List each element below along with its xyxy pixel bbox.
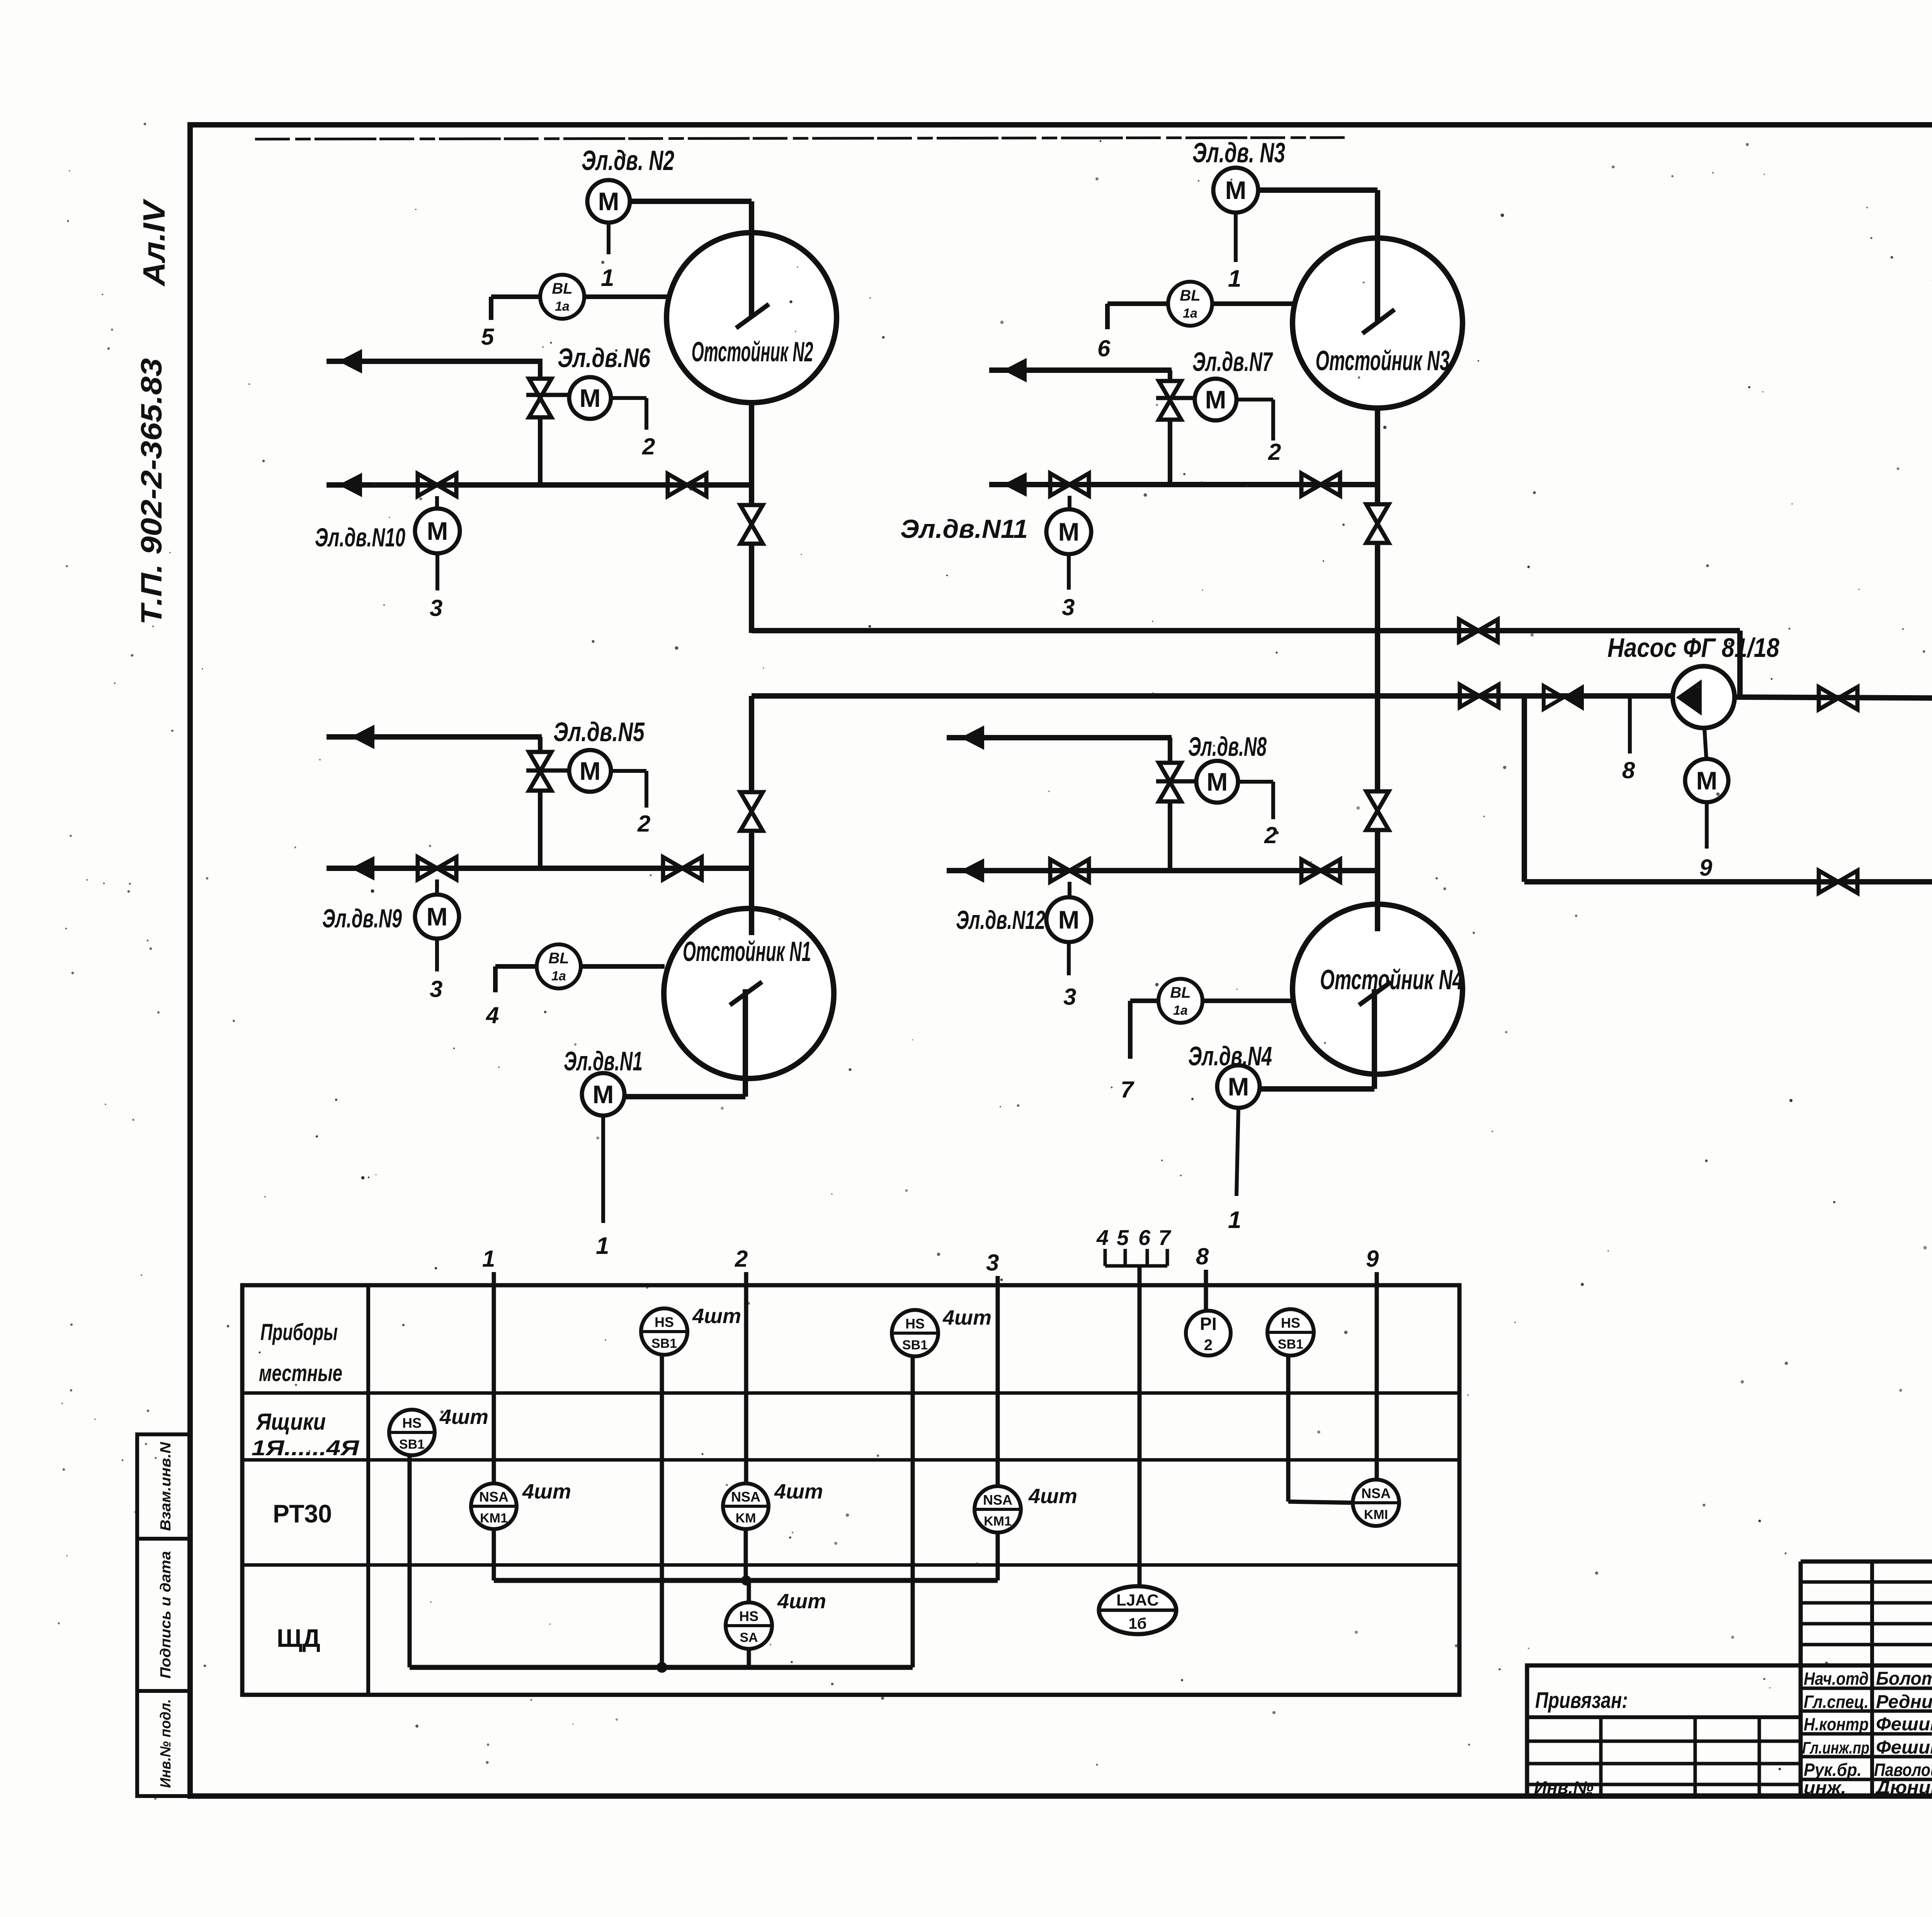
- svg-text:NSA: NSA: [983, 1492, 1012, 1508]
- wire M3 terminal stem: [1234, 213, 1238, 262]
- motor M5: [569, 750, 611, 792]
- svg-text:Эл.дв. N3: Эл.дв. N3: [1192, 138, 1285, 168]
- wire tank3 drain and main riser: [1375, 408, 1380, 504]
- wire HS/SA to ShchD bus: [747, 1648, 751, 1667]
- svg-text:3: 3: [430, 976, 442, 1002]
- signal line 3 wire to bus: [996, 1532, 1000, 1580]
- wire BL4 left: [1130, 998, 1158, 1003]
- wire M4 to tank4 mechanism: [1260, 1086, 1374, 1092]
- arrow tank1 lower outflow: [352, 857, 374, 880]
- valve on v chashu line: [1819, 871, 1857, 893]
- wire valve11 to M11: [1068, 496, 1071, 509]
- svg-text:KM1: KM1: [984, 1514, 1012, 1529]
- svg-text:РТ30: РТ30: [273, 1499, 332, 1528]
- pump discharge line iz chashi: [1735, 697, 1932, 699]
- wire tank3 upper branch: [989, 367, 1172, 373]
- wire BL3 left: [1107, 301, 1168, 306]
- svg-text:1a: 1a: [1183, 306, 1197, 321]
- collector line from tank2 to pump riser: [752, 628, 1740, 633]
- svg-text:ЩД: ЩД: [277, 1624, 320, 1652]
- sensor BL/1a tank4: [1158, 979, 1202, 1023]
- svg-text:1: 1: [482, 1246, 495, 1272]
- pressure tap stem 8: [1628, 696, 1632, 754]
- wire HS/SB1 line2 stem to ShchD bus: [911, 1356, 915, 1667]
- valve on iz chashi line: [1819, 687, 1857, 709]
- wire tank4 lower pipe: [947, 868, 1378, 873]
- wire collector riser corner: [1737, 631, 1743, 698]
- svg-text:2: 2: [1264, 822, 1277, 848]
- svg-text:M: M: [427, 517, 448, 545]
- arrow tank2 upper outflow: [339, 350, 362, 373]
- wire M3 to tank3 top: [1257, 187, 1378, 193]
- wire BL3 hook: [1105, 304, 1110, 329]
- wire corner to valve6: [538, 361, 543, 379]
- svg-text:1: 1: [1228, 1207, 1241, 1233]
- svg-text:4шт: 4шт: [942, 1306, 992, 1329]
- wire HS/SB1 stem down: [1286, 1356, 1291, 1502]
- wire valve8 to pipe: [1168, 801, 1172, 873]
- wire HS/SB1 line1 stem to ShchD bus: [660, 1355, 664, 1667]
- tank1 scraper hand: [730, 982, 762, 1005]
- tank2 scraper hand: [736, 304, 769, 328]
- wire branch down to v chashu line: [1522, 696, 1527, 882]
- svg-text:M: M: [1058, 905, 1080, 934]
- svg-text:Инв.№: Инв.№: [1534, 1778, 1594, 1798]
- tank3 scraper hand: [1362, 310, 1395, 333]
- svg-text:3: 3: [1063, 984, 1076, 1010]
- wire M2 terminal stem: [607, 223, 611, 254]
- svg-text:SA: SA: [740, 1630, 758, 1645]
- wire M8 right hook: [1238, 780, 1273, 784]
- svg-text:Гл.инж.пр: Гл.инж.пр: [1802, 1738, 1869, 1757]
- wire tank2 drain to collector: [749, 544, 754, 633]
- svg-text:M: M: [427, 902, 448, 931]
- relay NSA/KM1 line3: [975, 1486, 1021, 1533]
- svg-text:M: M: [1058, 517, 1080, 546]
- svg-text:NSA: NSA: [479, 1489, 509, 1505]
- pump Насос ФГ 81/18: [1673, 666, 1735, 728]
- valve on tank4 lower pipe: [1301, 859, 1340, 882]
- sensor BL/1a tank1: [537, 944, 581, 988]
- wire M6 right hook: [611, 396, 646, 400]
- svg-text:Паволоцкий: Паволоцкий: [1874, 1760, 1932, 1780]
- wire M9 terminal stem: [435, 939, 439, 971]
- svg-text:1Я......4Я: 1Я......4Я: [252, 1436, 359, 1460]
- title block top line: [1801, 1560, 1932, 1564]
- push button HS/SB1 local line1: [641, 1308, 687, 1355]
- wire valve9 to M9: [435, 879, 439, 895]
- bracket stem wire: [1138, 1266, 1142, 1588]
- wire pump motor terminal: [1705, 802, 1709, 849]
- svg-text:HS: HS: [739, 1608, 759, 1624]
- wire tank3 inlet stem: [1375, 190, 1380, 323]
- wire tank1 upper branch: [327, 734, 542, 740]
- svg-text:Взам.инв.N: Взам.инв.N: [158, 1441, 174, 1531]
- svg-text:PI: PI: [1200, 1314, 1216, 1334]
- svg-text:1: 1: [601, 265, 614, 291]
- svg-text:KM1: KM1: [480, 1511, 508, 1526]
- svg-text:Эл.дв.N5: Эл.дв.N5: [553, 717, 645, 747]
- wire tank3 lower pipe: [989, 482, 1378, 487]
- valve7 actuator crossbar: [1156, 396, 1196, 400]
- sensor BL/1a tank2: [540, 275, 584, 319]
- svg-text:Отстойник N3: Отстойник N3: [1316, 345, 1450, 376]
- svg-text:SB1: SB1: [399, 1437, 425, 1452]
- wire M11 terminal stem: [1067, 554, 1071, 590]
- RTZO bus wire: [494, 1578, 998, 1583]
- valve V10 with actuator: [418, 474, 456, 496]
- wire tank2 inlet stem: [749, 201, 754, 318]
- table row line 2: [242, 1458, 1459, 1462]
- svg-text:M: M: [1205, 385, 1226, 414]
- motor M11: [1046, 509, 1091, 554]
- pump motor M: [1685, 759, 1728, 802]
- svg-text:2: 2: [642, 434, 655, 459]
- arrow tank3 upper outflow: [1004, 359, 1026, 382]
- svg-text:9: 9: [1366, 1246, 1379, 1272]
- svg-text:2: 2: [1268, 439, 1281, 465]
- wire valve5 to pipe: [538, 790, 543, 870]
- svg-text:инж.: инж.: [1804, 1778, 1846, 1798]
- svg-text:KMI: KMI: [1364, 1507, 1388, 1522]
- wire BL1 left: [495, 964, 537, 969]
- svg-text:M: M: [1696, 766, 1718, 795]
- motor M6: [569, 377, 611, 419]
- pressure gauge PI/2: [1186, 1311, 1231, 1356]
- tank Отстойник N1: [664, 908, 834, 1078]
- motor M12: [1046, 897, 1091, 942]
- wire corner to valve7: [1168, 370, 1172, 382]
- wire valve7 to pipe: [1168, 419, 1172, 487]
- valve V6: [529, 379, 551, 417]
- bracket ticks: [1104, 1249, 1107, 1266]
- svg-text:Эл.дв.N7: Эл.дв.N7: [1192, 347, 1273, 377]
- valve on collector: [1459, 619, 1498, 642]
- push button HS/SB1 yashchiki: [389, 1410, 435, 1455]
- svg-text:4: 4: [1096, 1225, 1109, 1250]
- motor M3: [1213, 168, 1258, 213]
- scan speckle noise: [1712, 172, 1714, 174]
- signal line 2 wire: [744, 1272, 748, 1484]
- bracket bar: [1105, 1264, 1167, 1268]
- svg-text:5: 5: [1117, 1225, 1129, 1250]
- name table upper rows: [1801, 1580, 1932, 1584]
- svg-text:LJAC: LJAC: [1116, 1591, 1159, 1609]
- svg-text:1a: 1a: [555, 299, 570, 314]
- wire M4 terminal stem: [1236, 1108, 1238, 1196]
- svg-text:4: 4: [486, 1002, 499, 1028]
- wire M1 terminal stem: [601, 1116, 605, 1223]
- svg-text:7: 7: [1158, 1225, 1172, 1250]
- wire BL4 hook: [1128, 1001, 1133, 1059]
- tank4 scraper hand: [1359, 982, 1391, 1005]
- sensor BL/1a tank3: [1168, 282, 1212, 326]
- valve on suction line: [1460, 685, 1498, 707]
- signal line 1 wire to bus: [492, 1529, 496, 1580]
- signal line 3 wire: [996, 1276, 1000, 1487]
- motor M9: [415, 895, 459, 939]
- tank Отстойник N4: [1293, 904, 1463, 1074]
- svg-text:Привязан:: Привязан:: [1535, 1688, 1628, 1713]
- svg-text:M: M: [1207, 767, 1228, 796]
- wire pump to motor: [1704, 728, 1706, 759]
- svg-text:Эл.дв.N8: Эл.дв.N8: [1188, 731, 1267, 762]
- wire M2 to tank2 top: [630, 199, 752, 204]
- valve V9 with actuator: [418, 857, 456, 879]
- svg-text:4шт: 4шт: [692, 1305, 741, 1328]
- wire tank1 lower pipe: [327, 866, 752, 871]
- wire tank4 feed into tank: [1375, 830, 1380, 931]
- signal line 1 wire: [492, 1272, 496, 1484]
- svg-text:M: M: [593, 1080, 614, 1109]
- svg-text:M: M: [1228, 1072, 1249, 1101]
- wire BL1 hook: [493, 966, 498, 992]
- push button HS/SB1 local line2: [892, 1310, 938, 1356]
- rough scan line under top border: [255, 138, 1345, 139]
- svg-text:Насос ФГ 81/18: Насос ФГ 81/18: [1607, 633, 1779, 663]
- wire valve10 to M10: [435, 496, 439, 509]
- margin box Подпись и дата: [137, 1539, 190, 1691]
- motor M10: [415, 509, 460, 553]
- svg-text:Дюнина: Дюнина: [1874, 1778, 1932, 1798]
- svg-text:Фешин: Фешин: [1876, 1737, 1932, 1758]
- svg-text:2: 2: [735, 1246, 748, 1272]
- svg-text:NSA: NSA: [1361, 1485, 1391, 1501]
- wire BL2 right to tank2: [584, 294, 667, 299]
- motor M7: [1195, 379, 1236, 420]
- privyazan box: [1527, 1665, 1801, 1796]
- valve on tank2 lower pipe: [668, 474, 706, 496]
- svg-text:KM: KM: [736, 1511, 756, 1526]
- valve8 actuator crossbar: [1156, 779, 1197, 784]
- relay NSA/KM1 line1: [471, 1483, 517, 1529]
- svg-text:Подпись и дата: Подпись и дата: [158, 1551, 174, 1679]
- wire tank2 upper branch with arrow: [327, 359, 543, 364]
- check valve at pump inlet: [1544, 686, 1563, 709]
- signal line 2 wire to bus: [744, 1529, 748, 1580]
- wire M7 right hook: [1236, 398, 1273, 401]
- svg-text:6: 6: [1138, 1225, 1151, 1250]
- svg-text:SB1: SB1: [902, 1338, 928, 1352]
- name table verticals: [1799, 1561, 1803, 1796]
- table row line 3: [242, 1563, 1459, 1567]
- valve6 actuator crossbar: [526, 393, 570, 397]
- valve V8: [1159, 763, 1181, 801]
- svg-text:M: M: [598, 187, 619, 216]
- ShchD bus wire: [410, 1665, 913, 1670]
- tank Отстойник N3: [1293, 238, 1463, 408]
- svg-text:Эл.дв.N1: Эл.дв.N1: [564, 1046, 643, 1076]
- drawing frame border: [190, 125, 1932, 1796]
- svg-text:M: M: [580, 757, 601, 785]
- svg-text:Эл.дв.N12: Эл.дв.N12: [956, 905, 1045, 935]
- relay NSA/KM1 line9: [1353, 1480, 1399, 1526]
- valve V7: [1159, 381, 1181, 420]
- svg-text:4шт: 4шт: [439, 1405, 488, 1429]
- wire HS/SA to RTZO bus: [747, 1580, 751, 1603]
- push button HS/SB1 line8 area: [1267, 1309, 1314, 1356]
- level controller LJAC/1b: [1099, 1586, 1176, 1634]
- valve under tank3: [1366, 504, 1389, 543]
- relay NSA/KM line2: [723, 1483, 769, 1529]
- svg-text:Отстойник N2: Отстойник N2: [692, 337, 813, 367]
- wire M5 right hook: [611, 769, 646, 773]
- svg-text:BL: BL: [1170, 984, 1190, 1001]
- svg-text:7: 7: [1121, 1077, 1134, 1102]
- svg-text:Рук.бр.: Рук.бр.: [1804, 1760, 1862, 1780]
- svg-text:Редникин: Редникин: [1876, 1692, 1932, 1712]
- svg-text:M: M: [1225, 176, 1247, 204]
- wire HS/SB1 to NSA/KM1 line9: [1288, 1502, 1354, 1503]
- svg-text:1a: 1a: [1173, 1003, 1188, 1018]
- svg-text:SB1: SB1: [651, 1336, 677, 1351]
- svg-text:3: 3: [1062, 594, 1075, 620]
- svg-text:Эл.дв.N4: Эл.дв.N4: [1188, 1041, 1272, 1071]
- svg-text:1: 1: [596, 1233, 609, 1259]
- svg-text:M: M: [580, 384, 601, 412]
- title block strip line: [1527, 1664, 1932, 1668]
- valve V12 with actuator: [1050, 859, 1089, 882]
- valve5 actuator crossbar: [526, 769, 570, 773]
- valve under tank2: [740, 505, 763, 544]
- svg-text:HS: HS: [655, 1314, 674, 1330]
- junction dot line2-bus: [741, 1575, 751, 1585]
- svg-text:BL: BL: [552, 280, 572, 297]
- svg-text:3: 3: [986, 1250, 999, 1276]
- wire BL2 left: [491, 294, 540, 299]
- svg-text:5: 5: [481, 324, 495, 350]
- svg-text:8: 8: [1622, 757, 1635, 783]
- valve V11 with actuator: [1050, 473, 1089, 496]
- svg-text:Ящики: Ящики: [255, 1409, 326, 1435]
- svg-text:BL: BL: [548, 950, 569, 967]
- svg-text:1б: 1б: [1129, 1615, 1147, 1632]
- svg-text:6: 6: [1097, 335, 1111, 361]
- table row line 1: [242, 1391, 1459, 1395]
- table label column divider: [366, 1285, 370, 1695]
- signal line 9 wire: [1375, 1272, 1379, 1480]
- motor M4: [1217, 1065, 1260, 1108]
- arrow tank1 upper outflow: [352, 725, 374, 748]
- wire tank2 drain: [749, 403, 754, 505]
- wire valve6 to pipe: [538, 417, 543, 488]
- privyazan row lines: [1527, 1715, 1801, 1719]
- margin box Взам.инв.N: [137, 1434, 190, 1539]
- svg-text:9: 9: [1699, 855, 1713, 881]
- wire tank3 riser through collectors: [1375, 543, 1380, 791]
- wire corner to valve5: [538, 737, 543, 753]
- wire BL1 right to tank1: [581, 964, 665, 969]
- svg-text:Эл.дв.N11: Эл.дв.N11: [900, 514, 1028, 544]
- svg-text:Эл.дв.N9: Эл.дв.N9: [322, 904, 402, 933]
- svg-text:4шт: 4шт: [774, 1480, 823, 1503]
- svg-text:Инв.№ подл.: Инв.№ подл.: [158, 1699, 174, 1788]
- svg-text:Нач.отд: Нач.отд: [1804, 1669, 1869, 1689]
- valve tank4 feed: [1366, 791, 1389, 830]
- svg-text:BL: BL: [1180, 287, 1200, 304]
- svg-text:4шт: 4шт: [777, 1590, 826, 1613]
- svg-text:Ал.IV: Ал.IV: [137, 199, 171, 287]
- svg-text:8: 8: [1196, 1243, 1209, 1269]
- svg-text:2: 2: [637, 811, 650, 837]
- wire valve12 to M12: [1068, 882, 1071, 897]
- arrow tank4 lower outflow: [961, 859, 984, 882]
- wire BL4 right to tank4: [1202, 998, 1294, 1003]
- wire tank4 mechanism stem: [1372, 989, 1377, 1089]
- svg-text:Эл.дв.N6: Эл.дв.N6: [558, 343, 651, 373]
- table outer box: [242, 1285, 1459, 1695]
- svg-text:Фешин: Фешин: [1876, 1714, 1932, 1735]
- svg-text:3: 3: [430, 595, 442, 621]
- name table name rows: [1801, 1687, 1932, 1690]
- svg-text:Болотов: Болотов: [1876, 1669, 1932, 1689]
- wire HS/SB1 yashchiki stem: [408, 1455, 412, 1667]
- svg-text:1a: 1a: [551, 969, 566, 983]
- privyazan column lines: [1599, 1717, 1603, 1796]
- wire tank1 feed into tank: [749, 831, 754, 935]
- svg-text:Эл.дв. N2: Эл.дв. N2: [582, 145, 674, 176]
- signal line 8 wire: [1204, 1270, 1208, 1311]
- junction dot HS/SB1-line1 on ShchD bus: [656, 1662, 667, 1673]
- valve V5: [529, 752, 551, 791]
- svg-text:Отстойник N1: Отстойник N1: [683, 936, 811, 967]
- svg-text:HS: HS: [1281, 1315, 1300, 1331]
- pump suction line: [752, 693, 1675, 699]
- svg-text:Эл.дв.N10: Эл.дв.N10: [315, 523, 405, 552]
- arrow tank3 lower outflow: [1004, 473, 1026, 496]
- svg-text:2: 2: [1204, 1337, 1213, 1354]
- svg-text:NSA: NSA: [731, 1489, 760, 1505]
- wire M12 terminal stem: [1067, 942, 1071, 975]
- svg-text:1: 1: [1228, 265, 1241, 292]
- svg-text:HS: HS: [905, 1316, 925, 1332]
- wire suction corner down to tank1 feed: [749, 696, 754, 792]
- svg-text:4шт: 4шт: [522, 1480, 571, 1503]
- margin box Инв.№ подл.: [137, 1691, 190, 1796]
- svg-text:местные: местные: [259, 1360, 342, 1386]
- wire M10 terminal stem: [435, 553, 439, 590]
- tank Отстойник N2: [667, 233, 837, 403]
- svg-text:Т.П. 902-2-365.83: Т.П. 902-2-365.83: [135, 358, 168, 625]
- arrow tank4 upper outflow: [961, 726, 984, 749]
- wire tank4 upper branch: [947, 735, 1172, 740]
- valve on tank1 lower pipe: [663, 857, 702, 879]
- svg-text:Гл.спец.: Гл.спец.: [1804, 1692, 1869, 1712]
- svg-text:Отстойник N4: Отстойник N4: [1320, 964, 1463, 995]
- valve on tank3 lower pipe: [1301, 473, 1340, 496]
- arrow tank2 lower outflow: [339, 473, 362, 497]
- switch HS/SA in ShchD: [726, 1602, 772, 1649]
- motor M8: [1196, 761, 1238, 803]
- wire tank1 mechanism stem: [743, 989, 748, 1097]
- v chashu line: [1524, 879, 1932, 885]
- wire BL2 hook: [489, 297, 493, 320]
- svg-text:4шт: 4шт: [1028, 1485, 1077, 1508]
- motor M2: [587, 180, 630, 223]
- wire BL3 right to tank3: [1212, 301, 1293, 306]
- valve tank1 feed: [740, 792, 763, 831]
- wire corner to valve8: [1168, 738, 1172, 764]
- svg-text:HS: HS: [402, 1415, 422, 1431]
- wire M1 to tank1 mechanism: [624, 1094, 745, 1099]
- svg-text:Приборы: Приборы: [260, 1319, 338, 1345]
- svg-text:Н.контр: Н.контр: [1804, 1714, 1869, 1734]
- motor M1: [582, 1073, 624, 1116]
- wire tank2 lower pipe: [327, 482, 752, 488]
- svg-text:SB1: SB1: [1278, 1337, 1303, 1352]
